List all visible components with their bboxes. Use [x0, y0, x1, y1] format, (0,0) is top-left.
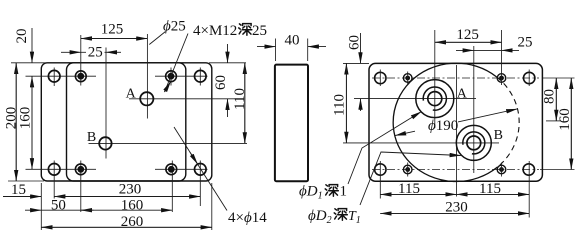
svg-text:260: 260 [121, 214, 144, 230]
ext: top edge extended left [11, 62, 46, 64]
dim 25 line right part [106, 51, 121, 53]
svg-text:50: 50 [51, 197, 66, 213]
dim 50 line left [25, 209, 41, 211]
centerline: right view bottom hole row (dash-dot) [372, 169, 539, 171]
centerline: hole A row right view / ext to 60 dim [354, 98, 476, 100]
ext: bottom edge extended left [8, 180, 44, 182]
dim 115 right line [457, 193, 530, 195]
dim 25 line mid parts [81, 51, 86, 53]
dim 160 (vertical) line [31, 76, 33, 169]
hole phi14 right-view top-right [524, 72, 535, 83]
ext: right view center row extended right [546, 120, 561, 122]
bearing bore A: middle circle (partial) [423, 87, 446, 110]
bearing bore A: inner circle [428, 92, 442, 106]
svg-text:125: 125 [101, 22, 124, 38]
svg-text:40: 40 [285, 33, 300, 49]
right view: plate outline [369, 63, 542, 181]
dim 60 right view upper [360, 33, 362, 63]
centerline: right M12 col L bottom [407, 163, 409, 177]
hole M12 top-left [75, 71, 86, 82]
dim 160 (bottom) line [81, 209, 173, 211]
dim 15 line [3, 196, 41, 198]
svg-text:160: 160 [121, 198, 144, 214]
ext: right view bottom hole row extended right [540, 169, 575, 171]
boss outline ellipse hidden arc (dashed) [497, 77, 519, 167]
dim 25 right view right arrow [502, 49, 520, 51]
centerline: phi14 col 1 top [53, 68, 55, 87]
dim phi190 line right part [458, 109, 517, 122]
centerline: hole B row / ext to 110 dim [89, 142, 248, 144]
left view: inner boss outline [67, 63, 186, 181]
dim 115 left line [380, 193, 456, 195]
boss outline ellipse solid arc [393, 63, 497, 181]
centerline: right phi14 col R bottom / ext to 230 dim [528, 161, 530, 218]
leader 4xphi14 [174, 127, 227, 211]
dim phi190 line left part [395, 131, 415, 135]
svg-text:60: 60 [346, 35, 362, 50]
centerline: bottom hole row (left segment) [26, 168, 97, 170]
svg-text:1: 1 [340, 184, 348, 200]
centerline: phi14 col 1 bottom / ext to 230 dim [53, 161, 55, 199]
centerline: right M12 col L top [407, 72, 409, 86]
dim 50 span line [41, 209, 81, 211]
hole phi14 right-view top-left [375, 72, 386, 83]
dim 110 right view line [345, 63, 347, 142]
dim 125 right view line [435, 41, 502, 43]
svg-text:230: 230 [119, 182, 142, 198]
svg-text:160: 160 [557, 108, 573, 131]
svg-text:80: 80 [541, 89, 557, 104]
svg-text:230: 230 [445, 199, 468, 215]
hole M12 bottom-left [75, 164, 86, 175]
hole M12 right-view bottom-left [403, 165, 412, 174]
dim 260 line [41, 226, 212, 228]
dim 160 right view line [570, 78, 572, 170]
svg-text:60: 60 [213, 75, 229, 90]
centerline: hole B row right view / ext to 110 dim [343, 142, 499, 144]
dim 25 right view left arrow [456, 49, 474, 51]
bearing bore B: middle circle (partial) [463, 132, 485, 154]
dim 80 line [555, 78, 557, 121]
dim 230 right view line [380, 212, 529, 214]
ext: middle view right edge up [307, 39, 309, 62]
centerline: M12 col 2 bottom / ext to 160 dim [171, 161, 173, 213]
ext: right edge extended down [211, 183, 213, 230]
svg-text:20: 20 [14, 29, 30, 44]
dim 60 line upper [227, 44, 229, 63]
ext: right view top edge extended left [343, 62, 369, 64]
dim 125 line [81, 38, 148, 40]
svg-text:25: 25 [518, 35, 533, 51]
hole phi14 top-left [48, 70, 60, 82]
centerline: right M12 col R / ext to 25 dim [501, 30, 503, 85]
svg-text:4×M12: 4×M12 [193, 23, 237, 39]
centerline: top hole row (right segment) [155, 75, 208, 77]
centerline: hole A column / ext to 125 dim [146, 34, 148, 119]
centerline: right view top hole row (dash-dot) [372, 77, 539, 79]
dim 230 line [54, 196, 200, 198]
ext: right view top hole row extended right [543, 77, 575, 79]
svg-text:115: 115 [479, 181, 501, 197]
svg-text:110: 110 [232, 88, 248, 110]
centerline: hole A row / ext to 60 dim [129, 98, 243, 100]
hole phi14 bottom-right [195, 164, 207, 176]
centerline: top hole row (left segment) [26, 75, 97, 77]
hole phi14 top-right [195, 70, 207, 82]
svg-text:25: 25 [252, 23, 267, 39]
hole phi14 right-view bottom-left [375, 164, 386, 175]
centerline: right phi14 col R top [528, 70, 530, 87]
centerline: phi14 col 2 top [199, 68, 201, 86]
hole M12 bottom-right [166, 164, 177, 175]
svg-text:160: 160 [18, 107, 34, 130]
svg-text:B: B [494, 128, 503, 143]
bearing bore B: inner circle [467, 136, 481, 150]
svg-text:ϕ190: ϕ190 [428, 118, 458, 134]
dim 40 right arrow [308, 46, 326, 48]
centerline: right phi14 col L bottom / ext to 115 dim [379, 161, 381, 199]
svg-text:A: A [457, 87, 468, 102]
hole M12 right-view top-left [403, 74, 412, 83]
centerline: right M12 col R bottom [501, 163, 503, 177]
hole M12 top-right [166, 71, 177, 82]
dim 20 line upper arrow [31, 28, 33, 63]
svg-text:B: B [87, 130, 96, 145]
centerline: phi14 col 2 bottom / ext to 230 dim [199, 161, 201, 207]
dim 25 line left part [61, 51, 81, 53]
leader phiD2 [360, 152, 461, 205]
hole B [99, 137, 111, 149]
svg-text:ϕ25: ϕ25 [163, 19, 186, 35]
hole M12 right-view top-right [497, 74, 506, 83]
leader phi25 [149, 32, 165, 45]
centerline: hole A column right view / ext to 125 dim [434, 30, 436, 128]
bearing bore B: outer circle [456, 125, 491, 160]
ext: left edge extended down [40, 183, 42, 230]
svg-text:A: A [126, 86, 137, 101]
hole M12 right-view bottom-right [497, 165, 506, 174]
centerline: right phi14 col L top [379, 70, 381, 87]
centerline: hole B column right view / ext to 25 dim [473, 46, 475, 173]
svg-text:115: 115 [398, 181, 420, 197]
hole phi14 right-view bottom-right [523, 164, 534, 175]
svg-text:4×ϕ14: 4×ϕ14 [228, 210, 267, 226]
dim 60 right view lower [360, 99, 362, 111]
ext: middle view left edge up [275, 39, 277, 62]
dim 40 left arrow [257, 46, 276, 48]
dim 25 right view span [474, 49, 502, 51]
hole phi14 bottom-left [48, 164, 60, 176]
centerline: right view vertical center (dash-dot) [456, 65, 458, 197]
centerline: M12 col 1 bottom / ext to 160 dim [80, 161, 82, 213]
middle view: plate side outline [275, 65, 308, 182]
dim 50 right arrow [81, 209, 94, 211]
centerline: bottom hole row (right segment) [155, 168, 208, 170]
hole A (phi25) [140, 92, 153, 105]
svg-text:125: 125 [456, 27, 479, 43]
bearing bore A: outer circle [416, 80, 454, 118]
svg-text:25: 25 [88, 45, 103, 61]
ext: top edge extended right [209, 62, 246, 64]
svg-text:110: 110 [332, 94, 348, 116]
dim 110 line [244, 63, 246, 144]
svg-text:15: 15 [11, 182, 26, 198]
centerline: M12 col 2 top [170, 68, 172, 86]
centerline: M12 col 1 top / ext to 25,125 dims [80, 35, 82, 86]
dim 200 line [15, 63, 17, 181]
leader phiD1 [348, 112, 422, 185]
dim 60 line lower [227, 99, 229, 117]
left view: outer plate outline [41, 63, 212, 181]
leader 4xM12 [165, 34, 189, 93]
centerline: hole B column / ext to 25 dim [105, 48, 107, 159]
